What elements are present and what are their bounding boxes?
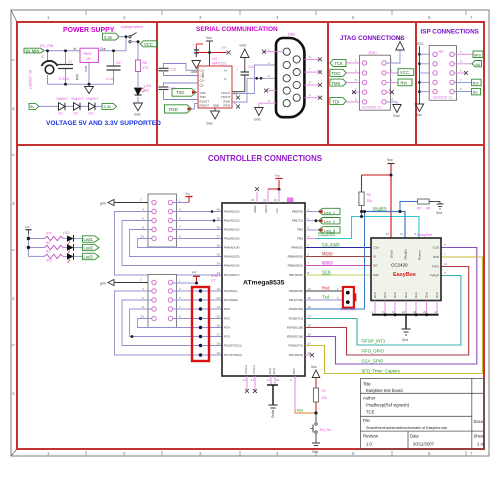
PD7 no connect (305, 353, 314, 357)
svg-text:14: 14 (308, 287, 312, 291)
svg-text:Led_2: Led_2 (324, 219, 336, 224)
svg-text:PD5(OC1A): PD5(OC1A) (287, 335, 303, 339)
junction dots power rail (46, 49, 115, 85)
reset switch (311, 413, 332, 443)
svg-text:TXD: TXD (176, 90, 184, 95)
isp pin3 to MOSI (454, 59, 481, 67)
svg-text:Gnd: Gnd (404, 292, 408, 298)
svg-text:TCE: TCE (366, 410, 375, 415)
svg-text:Gnd: Gnd (425, 292, 429, 298)
wire PB6 MISO (magenta) (305, 260, 371, 266)
net label Led3 (83, 253, 100, 259)
svg-text:Gnd: Gnd (206, 122, 213, 126)
connector header A (top 10-pin) (148, 194, 177, 247)
svg-text:Gnd: Gnd (312, 450, 318, 454)
svg-text:15: 15 (308, 296, 312, 300)
svg-text:9v: 9v (30, 104, 34, 109)
svg-text:EasyBee: EasyBee (417, 233, 432, 237)
net label Led1 (83, 236, 100, 242)
svg-text:D2: D2 (74, 112, 78, 116)
svg-text:EasyBee test board: EasyBee test board (366, 388, 403, 393)
DB9 left pin wires (259, 52, 283, 108)
resistor R7 0R (417, 199, 440, 211)
svg-text:DC_SOCKET: DC_SOCKET (28, 70, 32, 90)
svg-text:FIFO_GPIO: FIFO_GPIO (362, 349, 385, 354)
svg-text:C2+: C2+ (200, 79, 206, 83)
svg-text:R5: R5 (143, 61, 148, 65)
highlight red box (resistor network pins) (192, 287, 209, 361)
wire 3.3v to switch (119, 36, 129, 38)
svg-text:PD0(RXD): PD0(RXD) (289, 289, 303, 293)
ATmega right pin labels (287, 210, 303, 358)
svg-text:PA3(ADC3): PA3(ADC3) (224, 237, 239, 241)
svg-text:34: 34 (217, 262, 221, 266)
svg-text:U5: U5 (86, 57, 91, 61)
svg-text:T2IN: T2IN (200, 95, 206, 99)
svg-text:PB5(MOSI): PB5(MOSI) (288, 255, 303, 259)
power rail for LED group (25, 225, 45, 256)
svg-text:R6: R6 (367, 193, 371, 197)
svg-text:Gnd: Gnd (415, 113, 422, 117)
resistor R2 470 (45, 232, 68, 245)
svg-text:9V MIN: 9V MIN (26, 48, 40, 53)
svg-text:gnd: gnd (100, 202, 106, 206)
wire PB0 to Led_1 (305, 208, 340, 215)
svg-text:U7: U7 (211, 278, 215, 282)
svg-text:SmartHome\schematic\schematic: SmartHome\schematic\schematic of Easybee… (366, 426, 447, 430)
svg-text:Rst: Rst (473, 81, 480, 86)
regulator U5 7805 (74, 47, 106, 72)
svg-text:Gnd: Gnd (84, 66, 88, 72)
connector serial 2-pin (red) (340, 287, 357, 312)
header B vcc pin1 (173, 270, 200, 285)
jtag pin8 no connect (386, 88, 394, 95)
wire PD4 to FIFO row (crimson) (305, 267, 469, 356)
svg-text:VOLTAGE 5V AND 3.3V SUPPORTED: VOLTAGE 5V AND 3.3V SUPPORTED (46, 120, 161, 127)
svg-text:Txd: Txd (322, 294, 330, 299)
svg-text:Gnd: Gnd (393, 114, 400, 118)
svg-text:PA7(ADC7): PA7(ADC7) (224, 273, 239, 277)
svg-text:CS_2420: CS_2420 (322, 242, 340, 247)
svg-text:PA5(ADC5): PA5(ADC5) (224, 255, 239, 259)
net label Led2 (83, 244, 100, 250)
svg-text:16: 16 (402, 310, 406, 314)
svg-text:AGnd: AGnd (264, 205, 268, 213)
wire loops header B left pins to PC4-PC7 (115, 291, 223, 355)
svg-text:Out: Out (100, 47, 106, 51)
svg-text:PC7(TOSC2): PC7(TOSC2) (224, 353, 242, 357)
svg-text:Author: Author (363, 396, 376, 401)
CC2420 right pin labels (430, 246, 440, 278)
diode D3 (89, 103, 96, 116)
svg-text:U3: U3 (212, 57, 217, 61)
svg-text:PB2: PB2 (297, 228, 303, 232)
capacitor C12 (vcc decoupling) (192, 42, 203, 57)
svg-text:D4: D4 (145, 89, 150, 93)
wire PD2 INT0 to VregEN (blue) (305, 212, 365, 310)
svg-text:PC2: PC2 (224, 307, 230, 311)
svg-text:VCC: VCC (400, 70, 409, 75)
svg-text:vcc: vcc (192, 270, 197, 274)
svg-text:10: 10 (141, 235, 145, 239)
svg-text:1N4007: 1N4007 (71, 97, 83, 101)
ATmega top pins (251, 174, 294, 214)
no connect pin7 jtag (352, 88, 361, 95)
svg-text:PA6(ADC6): PA6(ADC6) (224, 264, 239, 268)
svg-text:Revison: Revison (363, 434, 379, 439)
capacitor C13 22uf (232, 58, 255, 92)
svg-text:DC_PIN: DC_PIN (40, 44, 54, 48)
svg-text:PD2(INT0): PD2(INT0) (289, 307, 303, 311)
svg-text:31: 31 (263, 198, 267, 202)
svg-text:R2OUT: R2OUT (200, 104, 210, 108)
svg-text:C1+: C1+ (200, 69, 206, 73)
svg-text:FIFOP: FIFOP (430, 274, 439, 278)
connector JTAG header (360, 51, 391, 110)
svg-text:SFD_Timer_Capture: SFD_Timer_Capture (362, 369, 401, 374)
connector ISP header (429, 46, 456, 101)
svg-text:D1: D1 (59, 112, 63, 116)
svg-text:9v: 9v (41, 55, 45, 59)
svg-text:Rst_Sw: Rst_Sw (320, 428, 332, 432)
svg-text:PB7(SCK): PB7(SCK) (289, 273, 303, 277)
svg-text:Gnd: Gnd (373, 292, 377, 298)
svg-text:22uf: 22uf (248, 65, 255, 69)
net label VCC (power) (140, 41, 157, 47)
svg-text:voltage select: voltage select (121, 25, 143, 29)
svg-text:FIFOP_INT1: FIFOP_INT1 (362, 338, 386, 343)
svg-text:470: 470 (46, 232, 52, 236)
gnd arrow to header B pin2 (100, 278, 152, 286)
wire PD5 to CCA row (purple) (305, 248, 477, 365)
svg-text:Gnd: Gnd (75, 74, 79, 80)
svg-text:XTAL1: XTAL1 (252, 365, 256, 374)
svg-text:VregEN: VregEN (373, 206, 387, 211)
svg-text:26: 26 (217, 324, 221, 328)
svg-text:MISO: MISO (322, 260, 333, 265)
net label 9V MIN (24, 44, 54, 59)
IC U3 MAX232 (198, 57, 232, 108)
svg-text:Gnd: Gnd (272, 368, 276, 374)
capacitor C10 (159, 64, 199, 76)
svg-text:10: 10 (141, 315, 145, 319)
svg-text:PB0(T0): PB0(T0) (292, 210, 303, 214)
wire PB1 to Led_2 (305, 218, 340, 225)
ground bus below CC2420 (372, 313, 439, 342)
svg-text:PB4(SS): PB4(SS) (291, 246, 303, 250)
net label TDO (330, 68, 361, 76)
svg-text:C1-: C1- (200, 74, 205, 78)
ground below LED (134, 103, 143, 117)
svg-text:RXD: RXD (169, 107, 178, 112)
wire switch to VCC and down to R5 (131, 42, 140, 103)
VCC rail (isp) (417, 42, 433, 104)
svg-text:SC: SC (473, 90, 479, 95)
DB9 holes left column (283, 48, 290, 107)
svg-text:SI: SI (373, 255, 376, 259)
svg-text:1N4007: 1N4007 (86, 97, 98, 101)
resistor R3 470 (45, 245, 68, 253)
svg-text:31: 31 (276, 378, 280, 382)
jtag | isp divider (415, 22, 417, 145)
svg-text:7805: 7805 (83, 52, 91, 56)
svg-text:CC2420: CC2420 (391, 263, 408, 268)
wire diode chain (39, 105, 102, 107)
svg-text:SCK: SCK (322, 269, 331, 274)
svg-text:28: 28 (217, 342, 221, 346)
module U4 CC2420 EasyBee (371, 233, 441, 301)
isp pin7 to Rst (454, 78, 481, 86)
svg-text:R2: R2 (46, 241, 50, 245)
svg-text:Pradheep(Ref vignesh): Pradheep(Ref vignesh) (366, 403, 410, 408)
svg-text:CCA: CCA (433, 246, 439, 250)
svg-text:HEADER 10: HEADER 10 (362, 106, 381, 110)
svg-text:vcc: vcc (25, 225, 30, 229)
wire R1IN to DB9 pin3 (232, 78, 276, 102)
svg-text:37: 37 (217, 235, 221, 239)
svg-text:PA2(ADC2): PA2(ADC2) (224, 228, 239, 232)
diode D1 (59, 103, 66, 116)
LED3 (67, 253, 83, 263)
ATmega right pin numbers (308, 208, 312, 356)
header A pin numbers (141, 199, 182, 239)
capacitor C11 (159, 83, 199, 100)
svg-text:File: File (363, 418, 370, 423)
svg-text:13: 13 (234, 92, 238, 96)
svg-text:DB9: DB9 (288, 33, 295, 37)
svg-text:V+: V+ (224, 69, 228, 73)
svg-text:VRegEn: VRegEn (404, 248, 408, 260)
net label 9v (diode chain input) (29, 103, 39, 109)
svg-text:Led3: Led3 (84, 255, 94, 260)
svg-text:33: 33 (217, 271, 221, 275)
LED1 (63, 231, 83, 245)
svg-text:13: 13 (400, 232, 404, 236)
svg-text:39: 39 (217, 217, 221, 221)
jtag pin10 to Gnd (bottom) (386, 97, 401, 118)
ground below MAX232 (206, 108, 220, 126)
svg-text:C7: C7 (68, 60, 73, 64)
svg-text:TCK: TCK (335, 61, 344, 66)
CC2420 top pin numbers (386, 232, 417, 236)
svg-text:Led_1: Led_1 (324, 210, 336, 215)
svg-text:35: 35 (217, 253, 221, 257)
svg-text:12: 12 (444, 262, 448, 266)
svg-text:20/12/2007: 20/12/2007 (413, 442, 435, 447)
svg-text:ISP CONNECTIONS: ISP CONNECTIONS (421, 29, 479, 36)
node VregEN (360, 202, 418, 239)
svg-text:Gnd: Gnd (393, 292, 397, 298)
svg-text:CONTROLLER CONNECTIONS: CONTROLLER CONNECTIONS (208, 154, 322, 163)
svg-text:Vcc: Vcc (275, 207, 279, 213)
svg-text:R3: R3 (46, 249, 50, 253)
resistor R4 470 (45, 254, 68, 262)
wire PD3 to FIFOP row (teal) (305, 276, 461, 346)
DB9 pin numbers left (268, 48, 270, 104)
isp pin5 no connect (454, 69, 468, 76)
net label TCK (330, 59, 361, 67)
svg-text:CSn: CSn (373, 246, 379, 250)
gnd arrow to header A pin2 (100, 198, 152, 206)
connector J2 DB9 (276, 33, 304, 118)
svg-text:GND: GND (213, 104, 219, 108)
svg-text:Rst: Rst (401, 81, 408, 86)
svg-text:PB3: PB3 (297, 237, 303, 241)
svg-text:3.3v: 3.3v (104, 35, 113, 40)
svg-text:Led1: Led1 (84, 237, 94, 242)
svg-text:Sclk: Sclk (373, 273, 379, 277)
svg-text:LED: LED (145, 84, 152, 88)
LED2 (67, 244, 83, 254)
svg-text:TDI: TDI (333, 99, 340, 104)
svg-text:R7: R7 (417, 207, 421, 211)
no-connect x marks DB9 left (262, 50, 268, 93)
svg-text:VCC: VCC (417, 42, 425, 46)
top boxes bottom / controller top (17, 144, 484, 146)
jtag pin2 to Gnd (top) (386, 37, 404, 64)
svg-text:D3: D3 (89, 112, 93, 116)
no-connect x on 1uf cap wire (227, 51, 231, 55)
svg-text:XTAL2: XTAL2 (244, 365, 248, 374)
DB9 right pin wires 6-9 (304, 59, 319, 97)
svg-text:470: 470 (46, 258, 52, 262)
svg-text:In: In (74, 47, 77, 51)
svg-text:C9: C9 (116, 61, 121, 65)
wire: 9V input rail (44, 37, 126, 84)
svg-text:20: 20 (308, 342, 312, 346)
svg-text:23: 23 (217, 296, 221, 300)
svg-text:CCA_GPIO: CCA_GPIO (362, 359, 384, 364)
wire PB2 to Led_3 (305, 227, 340, 234)
svg-text:Vcc: Vcc (275, 174, 281, 178)
svg-text:V-: V- (224, 77, 227, 81)
svg-text:PD4(OC1B): PD4(OC1B) (287, 326, 303, 330)
svg-text:gnd: gnd (100, 282, 106, 286)
ground arrow top right (serial) (240, 44, 250, 58)
capacitor C7 0.33uf (58, 60, 73, 81)
svg-text:27: 27 (217, 333, 221, 337)
power supply box divider (156, 22, 158, 145)
svg-text:SERIAL COMMUNICATION: SERIAL COMMUNICATION (196, 26, 278, 33)
svg-text:1.0: 1.0 (366, 442, 372, 447)
svg-text:JTAG: JTAG (368, 51, 377, 55)
svg-text:Title: Title (363, 382, 371, 387)
svg-text:29: 29 (217, 351, 221, 355)
svg-text:10: 10 (386, 232, 390, 236)
svg-text:Gnd: Gnd (383, 292, 387, 298)
svg-text:PA0(ADC0): PA0(ADC0) (224, 210, 239, 214)
svg-text:32: 32 (251, 198, 255, 202)
wire PD0 Rxd (305, 285, 343, 291)
svg-text:ATmega8535: ATmega8535 (243, 280, 285, 287)
wire PB7 SCK (yellow-green) (305, 269, 371, 275)
svg-text:0.33uf: 0.33uf (59, 77, 69, 81)
svg-text:LED: LED (63, 231, 70, 235)
svg-text:C2-: C2- (200, 84, 205, 88)
svg-text:PC6(TOSC1): PC6(TOSC1) (224, 344, 242, 348)
svg-text:14: 14 (434, 310, 438, 314)
net label TMS (330, 78, 361, 86)
svg-text:10: 10 (390, 97, 394, 101)
resistor R6 15k (pullup) (359, 192, 372, 217)
svg-text:PD1(TXD): PD1(TXD) (289, 298, 303, 302)
Vcc above CC2420 (387, 158, 395, 175)
net label TXD (172, 88, 198, 96)
CC2420 top pin labels (rotated) (390, 248, 422, 260)
svg-text:MOSI: MOSI (322, 251, 333, 256)
svg-text:16: 16 (308, 305, 312, 309)
svg-text:1uf: 1uf (221, 46, 226, 50)
wire PB5 MOSI (maroon) (305, 251, 371, 257)
svg-text:VCC: VCC (144, 42, 153, 47)
svg-text:PC3: PC3 (224, 317, 230, 321)
svg-text:SO: SO (373, 264, 378, 268)
ISP holes (433, 52, 454, 94)
ground below ISP rail (415, 104, 424, 117)
svg-text:PD6(ICP1): PD6(ICP1) (288, 344, 303, 348)
svg-text:RST: RST (292, 368, 296, 374)
net label 3.3v output (102, 103, 117, 109)
net label RXD (165, 104, 199, 114)
svg-text:HEADER 10: HEADER 10 (433, 96, 452, 100)
net label TDI (330, 97, 361, 104)
svg-text:18: 18 (308, 324, 312, 328)
svg-text:10: 10 (274, 198, 278, 202)
resistor R5 (135, 60, 148, 72)
resistor R1 10k (reset pullup) (313, 388, 327, 413)
DB9 holes right column (293, 56, 300, 101)
svg-text:15k: 15k (367, 199, 373, 203)
svg-text:Sheet: Sheet (474, 434, 486, 439)
ATmega left pin numbers (217, 208, 221, 356)
DC socket J1 (28, 61, 58, 90)
svg-text:C10: C10 (170, 68, 177, 72)
capacitor C9 0.1uf (106, 61, 121, 81)
svg-text:Gnd: Gnd (240, 44, 247, 48)
isp pin1 to MISO (454, 50, 483, 58)
connector header B (bottom 10-pin) (148, 275, 177, 328)
wire T1OUT to DB9 pin2 (232, 65, 276, 94)
svg-text:Vcc: Vcc (387, 158, 393, 162)
svg-text:3.3v: 3.3v (104, 104, 112, 109)
svg-text:PA1(ADC1): PA1(ADC1) (224, 219, 239, 223)
net name labels GPIO rows (362, 338, 401, 373)
svg-text:R2IN: R2IN (224, 104, 230, 108)
svg-text:Gnd: Gnd (396, 37, 403, 41)
svg-text:Vcc: Vcc (311, 365, 317, 369)
svg-text:AREF: AREF (253, 205, 257, 213)
svg-text:Rxd: Rxd (322, 285, 330, 290)
wire PD1 Txd (305, 294, 343, 300)
svg-text:R1: R1 (322, 389, 326, 393)
wires header A right pins to PA0-PA3 (173, 212, 222, 239)
svg-text:Date: Date (410, 434, 420, 439)
ground right of R7 (436, 204, 444, 215)
svg-text:12: 12 (243, 378, 247, 382)
svg-text:470: 470 (143, 66, 149, 70)
svg-text:Gnd: Gnd (254, 118, 261, 122)
ATmega bottom pins xtal gnd rst (243, 365, 296, 405)
wire RST pin down to reset node (295, 376, 318, 415)
CC2420 bottom Gnd pins (373, 292, 439, 298)
wire vcc node (197, 53, 227, 67)
serial | jtag divider (327, 22, 329, 145)
svg-text:17: 17 (308, 315, 312, 319)
svg-text:TDO: TDO (332, 71, 342, 76)
CC2420 bottom pin stubs (375, 301, 437, 315)
diode D2 (74, 103, 81, 116)
svg-text:MAX232: MAX232 (212, 62, 227, 66)
